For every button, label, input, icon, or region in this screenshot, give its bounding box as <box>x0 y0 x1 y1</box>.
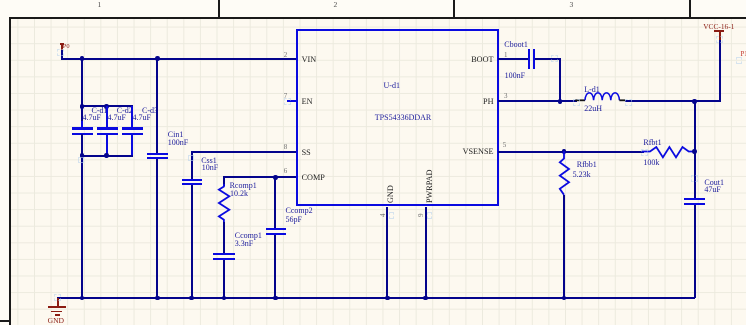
capacitor Ccomp1 plates <box>213 253 235 255</box>
junction top bus left <box>80 104 85 109</box>
junction ground rail cap bank <box>80 296 85 301</box>
capacitor C-d2 plates <box>97 127 118 129</box>
junction Rfbb1 tap <box>562 149 567 154</box>
resistor Rfbb1 <box>555 151 573 197</box>
junction ground rail GND pin <box>385 296 390 301</box>
border column tick 2 <box>453 0 455 17</box>
wire Cout1 to ground rail <box>694 205 696 298</box>
capacitor C-d1 value <box>83 114 101 122</box>
wire Cin1 bottom lead <box>156 159 158 298</box>
power port VCC-16-1 label <box>703 23 734 30</box>
pin 7 EN name <box>302 98 313 106</box>
power port VCC-16-1 bar <box>714 30 723 32</box>
wire Ccomp2 to ground rail <box>274 235 276 298</box>
wire Cboot1 to PH node <box>535 58 561 60</box>
ground stem <box>57 298 59 307</box>
pin 8 SS name <box>302 149 311 157</box>
resistor Rcomp1 label <box>230 182 257 190</box>
column label 1 <box>98 1 102 9</box>
pin 3 PH name <box>483 98 493 106</box>
wire Rfbt1 to VOUT <box>694 101 696 198</box>
capacitor Cin1 label <box>168 131 184 139</box>
wire Css1 to ground rail <box>191 185 193 298</box>
capacitor Css1 plates <box>182 179 203 181</box>
inductor L-d1 label <box>584 86 600 94</box>
junction ground rail Ccomp2 <box>273 296 278 301</box>
marker Cboot1 <box>551 55 558 62</box>
marker ground <box>54 294 61 301</box>
pin 3 number <box>504 93 508 100</box>
junction Ccomp2 tap <box>273 175 278 180</box>
ground bar 3 <box>55 314 61 316</box>
junction bottom bus mid <box>104 153 109 158</box>
sheet border left edge <box>9 17 11 325</box>
capacitor C-d3 plates <box>122 127 143 129</box>
wire P0 to VIN rail <box>61 50 63 59</box>
resistor Rcomp1 value <box>230 190 248 198</box>
wire Ccomp2 top lead <box>274 177 276 228</box>
column label 2 <box>334 1 338 9</box>
pin 9 PWRPAD name <box>426 169 434 202</box>
marker L-d1 right <box>625 99 632 106</box>
pin 6 number <box>284 168 288 175</box>
junction input caps <box>80 56 85 61</box>
wire COMP drop to Rcomp1 <box>223 177 225 186</box>
capacitor C-d2 lead top <box>106 106 108 127</box>
op-amp U-d1 body <box>296 29 499 206</box>
pin 2 VIN name <box>302 56 317 64</box>
power port P0 bar <box>60 43 64 44</box>
wire SS drop to Css1 <box>191 152 193 179</box>
capacitor C-d1 plates <box>72 127 93 129</box>
border row tick left <box>0 320 10 322</box>
capacitor C-d3 value <box>133 114 151 122</box>
resistor Rfbb1 label <box>577 161 597 169</box>
pin 4 GND name <box>387 185 395 203</box>
wire Ccomp1 to ground rail <box>223 260 225 298</box>
wire VCC drop <box>719 40 721 101</box>
marker L-d1 left <box>573 99 580 106</box>
marker VCC stem <box>716 36 723 43</box>
wire VIN rail <box>61 58 297 60</box>
capacitor Ccomp1 label <box>235 232 262 240</box>
resistor Rfbt1 label <box>643 139 661 147</box>
wire cap bank top bus <box>81 105 133 107</box>
capacitor Ccomp2 plates <box>266 228 286 230</box>
border column tick 1 <box>218 0 220 17</box>
junction top bus mid <box>104 104 109 109</box>
capacitor C-d3 lead top <box>131 106 133 127</box>
power port VCC-16-1 stem <box>719 31 721 40</box>
pin 9 PWRPAD stub <box>425 207 427 299</box>
capacitor Cout1 plates <box>684 198 705 200</box>
wire cap bank left drop <box>81 59 83 128</box>
marker pin4 <box>389 212 394 219</box>
resistor Rcomp1 <box>214 184 234 224</box>
border column tick 3 <box>689 0 691 17</box>
pin 8 number <box>284 144 288 151</box>
capacitor Cout1 value <box>704 186 720 194</box>
inductor L-d1 value <box>584 105 602 113</box>
capacitor Cin1 plates <box>147 153 168 155</box>
junction ground rail PWRPAD pin <box>423 296 428 301</box>
pin 1 number <box>504 52 508 59</box>
capacitor C-d1 lead <box>81 121 83 128</box>
op-amp U-d1 designator <box>384 82 400 90</box>
clipped power port P1 <box>741 52 746 59</box>
pin 7 EN stub <box>287 100 297 102</box>
ground label <box>48 317 64 325</box>
marker EN pin <box>284 98 291 105</box>
marker Cout1 <box>691 175 698 182</box>
junction ground rail Rfbb1 <box>562 296 567 301</box>
pin 2 number <box>284 52 288 59</box>
pin 4 number <box>380 213 387 217</box>
inductor L-d1 <box>575 90 627 103</box>
wire cap bank to ground rail <box>81 134 83 298</box>
marker Rfbt1 <box>641 149 648 156</box>
capacitor C-d3 lead bottom <box>131 135 133 156</box>
ground bar 1 <box>48 306 66 308</box>
ground bar 2 <box>51 311 62 313</box>
wire Rfbb1 to ground rail <box>563 195 565 298</box>
wire COMP pin run <box>223 176 297 178</box>
sheet border top edge <box>9 17 746 19</box>
wire Rcomp1 to Ccomp1 <box>223 222 225 254</box>
capacitor Cin1 value <box>168 139 188 147</box>
marker P0 <box>57 49 64 56</box>
capacitor C-d2 label <box>117 107 133 115</box>
marker pin9 <box>427 212 432 219</box>
resistor Rfbt1 value <box>643 159 659 167</box>
capacitor C-d2 lead bottom <box>106 135 108 156</box>
pin 7 number <box>284 93 288 100</box>
power port P0 stem <box>61 44 63 51</box>
capacitor Cboot1 plates <box>528 49 530 69</box>
pin 1 BOOT name <box>471 56 493 64</box>
wire PH pin run <box>498 100 577 102</box>
capacitor Cboot1 value <box>505 72 525 80</box>
marker P1 port <box>736 57 742 64</box>
wire cap bank bottom bus <box>81 155 133 157</box>
wire Cin1 top lead <box>156 59 158 153</box>
capacitor Ccomp1 value <box>235 240 253 248</box>
junction bottom bus left <box>80 153 85 158</box>
capacitor Ccomp2 value <box>286 216 302 224</box>
capacitor C-d3 label <box>142 107 158 115</box>
pin 4 GND stub <box>386 207 388 299</box>
capacitor C-d1 label <box>92 107 108 115</box>
junction ground rail Cin1 <box>155 296 160 301</box>
marker Css1 <box>188 155 194 161</box>
wire VSENSE pin run <box>498 151 644 153</box>
wire BOOT pin to Cboot1 <box>498 58 528 60</box>
wire L-d1 to VCC corner <box>625 100 721 102</box>
junction VOUT node <box>692 99 697 104</box>
junction Cin1 top <box>155 56 160 61</box>
pin 9 number <box>418 213 425 217</box>
op-amp U-d1 part number <box>375 114 431 122</box>
wire SS pin run <box>191 151 297 153</box>
wire ground rail <box>57 297 696 299</box>
pin 6 COMP name <box>302 174 325 182</box>
capacitor Ccomp2 label <box>286 207 313 215</box>
column label 3 <box>570 1 574 9</box>
junction Rfbt1 VOUT tap <box>692 149 697 154</box>
resistor Rfbb1 value <box>573 171 591 179</box>
pin 5 VSENSE name <box>463 148 494 156</box>
junction Cboot1 PH node <box>558 99 563 104</box>
capacitor Cboot1 label <box>504 41 528 49</box>
capacitor Cout1 label <box>704 179 724 187</box>
capacitor Css1 label <box>201 157 217 165</box>
capacitor C-d2 value <box>108 114 126 122</box>
power port P0 label <box>63 44 70 50</box>
junction ground rail Css1 <box>189 296 194 301</box>
marker bottom bus <box>78 157 84 163</box>
junction ground rail Ccomp1 <box>222 296 227 301</box>
capacitor Css1 value <box>202 164 218 172</box>
resistor Rfbt1 <box>642 144 696 160</box>
pin 5 number <box>503 142 507 149</box>
